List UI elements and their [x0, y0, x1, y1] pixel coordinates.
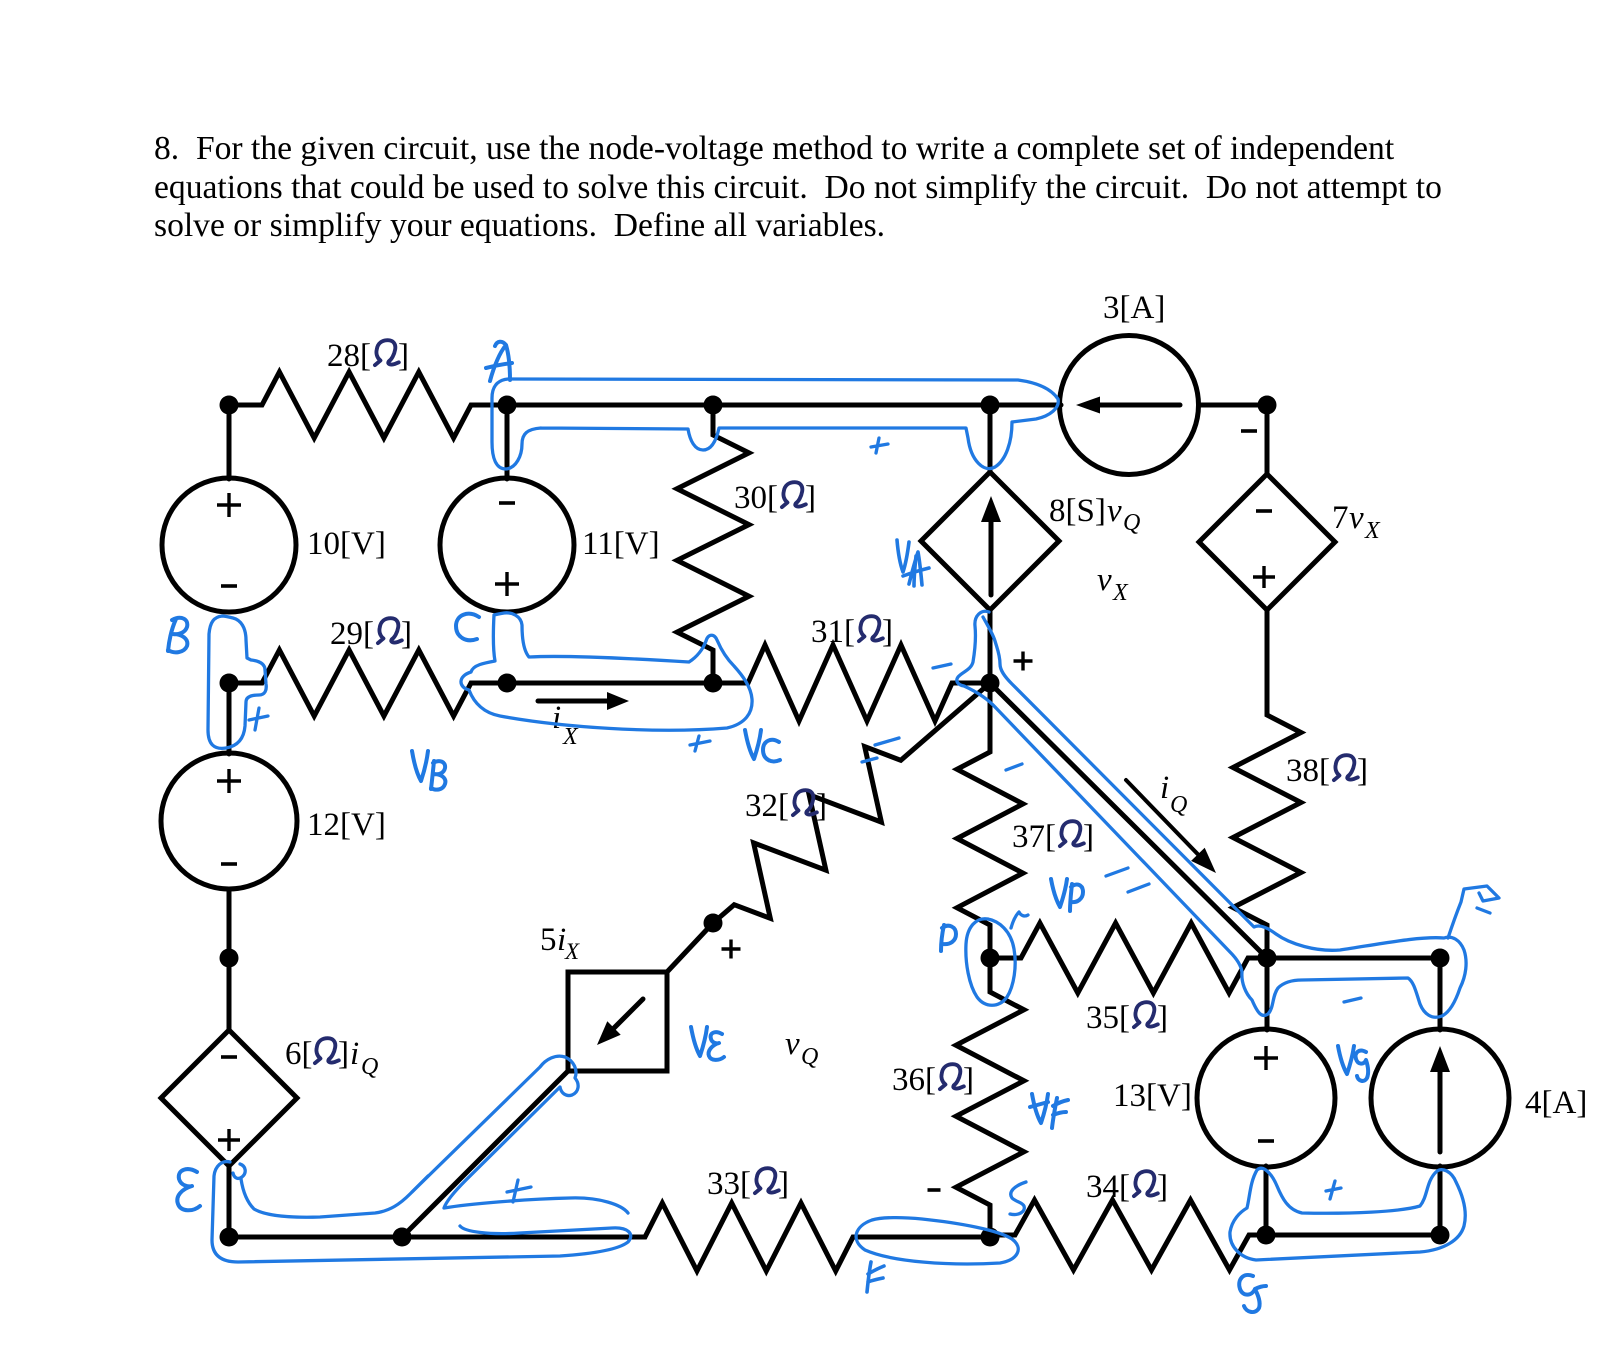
- blue minus marks near node H: [933, 664, 951, 668]
- dependent source B5 5iX box: [568, 972, 667, 1071]
- node N: [1431, 949, 1450, 968]
- svg-text:X: X: [564, 939, 580, 964]
- svg-text:]: ]: [1157, 1169, 1168, 1205]
- blue node label E: [177, 1169, 200, 1210]
- svg-text:]: ]: [398, 338, 409, 374]
- D8 arrow up inside: [989, 517, 994, 595]
- svg-text:35[: 35[: [1086, 1000, 1130, 1036]
- resistor R35 35ohm horizontal: [990, 923, 1267, 993]
- voltage source V10 10V circle: [162, 478, 296, 612]
- label VE region minus near node F: [928, 1188, 941, 1192]
- node 8S top: [981, 396, 1000, 415]
- wire node B to 12V top: [227, 683, 232, 754]
- D6 minus inside top: [221, 1055, 237, 1059]
- blue loop around node F: [856, 1218, 1018, 1264]
- blue curl and line above bottom rail near node E: [233, 1164, 428, 1217]
- resistor R31 31ohm: [713, 645, 990, 721]
- node bottom 13V: [1257, 1226, 1276, 1245]
- minus sign near top-right node: [1241, 429, 1257, 433]
- svg-text:Q: Q: [1123, 510, 1140, 536]
- blue plus mark near node M: [507, 1180, 531, 1202]
- blue node label C: [456, 614, 479, 640]
- V10 plus sign: [217, 493, 241, 517]
- svg-text:32[: 32[: [745, 788, 789, 824]
- blue node label B: [168, 618, 187, 653]
- plus sign near node K: [722, 940, 741, 959]
- wire node J to 13V top: [1265, 958, 1270, 1030]
- resistor R33 33ohm bottom: [402, 1203, 990, 1271]
- wire node C to R31: [507, 681, 713, 686]
- D7 plus inside bottom: [1253, 566, 1275, 588]
- voltage source V11 11V circle: [440, 478, 574, 612]
- node C: [498, 674, 517, 693]
- V12 plus sign: [217, 769, 241, 793]
- wire 8S diamond bottom lead to node H: [988, 610, 993, 683]
- current source I4 4A circle: [1371, 1029, 1509, 1167]
- node R30 top: [704, 396, 723, 415]
- svg-text:v: v: [1349, 500, 1364, 536]
- svg-text:equations that could be used t: equations that could be used to solve th…: [154, 169, 1442, 206]
- wire top rail node A to 3A source: [507, 403, 1061, 408]
- blue plus mark near 13V bottom: [1326, 1181, 1341, 1199]
- bottom rail node E to node M: [229, 1235, 402, 1240]
- resistor R30 30ohm vertical: [677, 405, 749, 683]
- current arrow iQ along diagonal: [1126, 780, 1202, 858]
- dependent source D8 8[S]vQ diamond: [921, 472, 1059, 610]
- voltage source V13 13V circle: [1197, 1029, 1335, 1167]
- D6 plus inside bottom: [218, 1129, 240, 1151]
- svg-text:11[V]: 11[V]: [582, 526, 660, 562]
- node R30 bottom: [704, 674, 723, 693]
- I3 arrow pointing left: [1095, 403, 1180, 408]
- svg-text:]: ]: [1083, 819, 1094, 855]
- wire 7vX diamond top lead: [1265, 405, 1270, 475]
- node L: [220, 949, 239, 968]
- svg-text:]: ]: [401, 616, 412, 652]
- blue node label A: [486, 342, 512, 381]
- svg-text:v: v: [1107, 493, 1122, 529]
- blue node label D: [941, 925, 956, 951]
- blue label VC: [745, 730, 780, 761]
- node H: [981, 674, 1000, 693]
- resistor R37 37ohm vertical: [957, 683, 1023, 958]
- svg-text:]: ]: [1357, 753, 1368, 789]
- blue loop around 8S bottom wire, node H, diagonal to node J, and right wire: [957, 611, 1466, 1017]
- svg-text:31[: 31[: [811, 614, 855, 650]
- node E: [220, 1228, 239, 1247]
- svg-text:]: ]: [805, 480, 816, 516]
- wire 8S diamond top lead: [988, 405, 993, 473]
- node F: [981, 1228, 1000, 1247]
- svg-text:v: v: [785, 1026, 800, 1062]
- wire 13V bottom to bottom rail: [1264, 1166, 1269, 1235]
- svg-text:7: 7: [1332, 500, 1349, 536]
- blue minus mark near 13V top: [1344, 998, 1361, 1002]
- node top-right: [1258, 396, 1277, 415]
- diagonal wire node H to node J: [990, 683, 1267, 958]
- V11 plus sign: [495, 572, 519, 596]
- svg-text:v: v: [1097, 562, 1112, 598]
- svg-text:Q: Q: [801, 1044, 818, 1070]
- I4 arrow up inside: [1438, 1067, 1443, 1152]
- svg-text:]: ]: [963, 1062, 974, 1098]
- wire node L to 6ohm diamond top: [227, 958, 232, 1031]
- resistor R29 29ohm between node B and node C: [229, 650, 507, 716]
- blue plus mark near VC: [690, 736, 710, 751]
- blue plus mark near top rail: [871, 438, 888, 453]
- svg-text:30[: 30[: [734, 480, 778, 516]
- node M: [393, 1228, 412, 1247]
- svg-text:33[: 33[: [707, 1166, 751, 1202]
- resistor R28 28ohm top-left: [229, 372, 507, 438]
- svg-text:29[: 29[: [330, 616, 374, 652]
- wire 4A bottom to bottom rail: [1438, 1166, 1443, 1235]
- svg-text:13[V]: 13[V]: [1113, 1078, 1192, 1114]
- node bottom 4A: [1431, 1226, 1450, 1245]
- wire box bottom-left corner to node M: [402, 1071, 568, 1237]
- dependent source D6 6[ohm]iQ diamond: [161, 1030, 297, 1166]
- svg-text:]: ]: [882, 614, 893, 650]
- wire node J to node N top right: [1267, 956, 1440, 961]
- node A: [498, 396, 517, 415]
- blue loop around node B: [208, 616, 266, 748]
- blue plus mark near node B: [249, 708, 268, 730]
- svg-text:5: 5: [540, 922, 557, 958]
- voltage source V12 12V circle: [161, 753, 297, 889]
- plus sign right of node H: [1014, 652, 1033, 671]
- wire 6ohm diamond bottom to node E: [227, 1165, 232, 1237]
- wire top rail 3A source to top-right node: [1201, 403, 1267, 408]
- V13 minus sign: [1258, 1139, 1274, 1143]
- blue label VF: [1030, 1094, 1068, 1128]
- svg-text:38[: 38[: [1286, 753, 1330, 789]
- svg-text:solve or simplify your equatio: solve or simplify your equations. Define…: [154, 207, 885, 244]
- V10 minus sign: [221, 584, 237, 588]
- blue label VA: [897, 540, 929, 586]
- wire node K to box top-right corner: [667, 923, 713, 972]
- svg-text:X: X: [562, 724, 579, 750]
- wire node A to 11V top: [505, 405, 510, 479]
- blue loop around node E and bottom rail: [212, 1162, 631, 1262]
- resistor R38 38ohm vertical: [1233, 610, 1301, 958]
- svg-text:]: ]: [778, 1166, 789, 1202]
- svg-text:28[: 28[: [327, 338, 371, 374]
- blue label VD: [1051, 879, 1083, 911]
- dependent source D7 7vX diamond: [1199, 474, 1335, 610]
- blue node label F: [867, 1262, 884, 1292]
- blue node label G: [1239, 1275, 1266, 1312]
- svg-text:37[: 37[: [1012, 819, 1056, 855]
- svg-text:]: ]: [816, 788, 827, 824]
- bottom rail right section: [1266, 1233, 1440, 1238]
- resistor R34 34ohm bottom: [990, 1200, 1267, 1270]
- svg-text:34[: 34[: [1086, 1169, 1130, 1205]
- blue label VE: [691, 1027, 724, 1060]
- blue flag doodle top-right of node J: [1448, 886, 1499, 938]
- svg-text:Q: Q: [1170, 792, 1187, 818]
- blue squiggle right of R36 bottom: [1010, 1182, 1026, 1215]
- svg-text:]: ]: [338, 1036, 349, 1072]
- svg-text:10[V]: 10[V]: [307, 526, 386, 562]
- node B: [220, 674, 239, 693]
- svg-text:i: i: [552, 700, 561, 736]
- blue loop around node C and wire to R30 bottom: [461, 613, 752, 730]
- blue loop around bottom-right rail: [1230, 1168, 1465, 1260]
- node D: [981, 949, 1000, 968]
- wire 12V bottom to node L: [227, 889, 232, 958]
- node top-left: [220, 396, 239, 415]
- svg-text:Q: Q: [361, 1054, 378, 1080]
- blue label VB: [412, 751, 445, 790]
- svg-text:]: ]: [1157, 1000, 1168, 1036]
- svg-text:12[V]: 12[V]: [307, 807, 386, 843]
- svg-text:36[: 36[: [892, 1062, 936, 1098]
- V12 minus sign: [221, 862, 237, 866]
- svg-text:i: i: [1160, 770, 1169, 806]
- svg-text:8. For the given circuit, use: 8. For the given circuit, use the node-v…: [154, 130, 1395, 167]
- D7 minus inside top: [1256, 509, 1272, 513]
- wire node N to 4A top: [1438, 958, 1443, 1030]
- blue r mark near node D: [1011, 912, 1028, 928]
- svg-text:i: i: [350, 1036, 359, 1072]
- B5 arrow inside pointing down-left: [611, 999, 643, 1031]
- svg-text:6[: 6[: [285, 1036, 313, 1072]
- svg-text:4[A]: 4[A]: [1525, 1085, 1587, 1121]
- svg-text:X: X: [1364, 518, 1381, 544]
- wire top-left vertical (node1 to 10V top): [227, 405, 232, 479]
- blue loop around node A and top rail: [492, 379, 1058, 469]
- current source I3 3A circle: [1060, 336, 1199, 475]
- blue loop around diagonal wire to 5iX box: [412, 1056, 628, 1213]
- svg-text:X: X: [1112, 580, 1129, 606]
- V13 plus sign: [1254, 1046, 1278, 1070]
- current arrow iX: [538, 699, 611, 704]
- blue minus marks near diagonal: [1106, 868, 1128, 876]
- svg-text:3[A]: 3[A]: [1103, 290, 1165, 326]
- resistor R32 32ohm diagonal: [713, 683, 990, 923]
- node K: [704, 914, 723, 933]
- svg-text:8[S]: 8[S]: [1049, 493, 1106, 529]
- problem statement text: [154, 130, 1442, 244]
- V11 minus sign: [499, 501, 515, 505]
- blue loop around node D: [966, 919, 1015, 1006]
- blue label VG: [1338, 1046, 1368, 1081]
- node J: [1258, 949, 1277, 968]
- resistor R36 36ohm vertical: [956, 958, 1024, 1237]
